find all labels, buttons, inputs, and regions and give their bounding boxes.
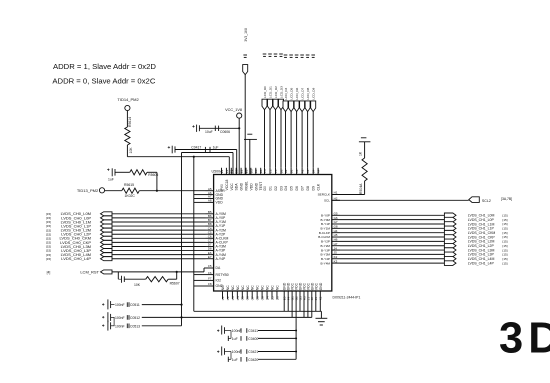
capacitor C5607 — [121, 276, 123, 283]
pin stub right pin K2 (B-Y4P) — [332, 258, 340, 260]
resistor R5607 — [146, 277, 169, 282]
no-connect mark above LCD_D3 — [279, 53, 283, 55]
svg-text:D6: D6 — [275, 296, 279, 300]
svg-text:C0513: C0513 — [130, 324, 140, 328]
capacitor C0606 plates — [214, 126, 216, 131]
pin stub bottom NC pin C6 — [246, 291, 248, 299]
svg-text:LCD_D6: LCD_D6 — [295, 87, 299, 99]
no-connect mark above LCD_D4 — [284, 54, 288, 56]
pin stub top pin F1 — [230, 168, 232, 175]
offpage tag LVDS_CH1_L3M — [444, 248, 456, 253]
pin stub top pin B1 — [290, 168, 292, 175]
pin stub left pin B5 (A-Y0M) — [206, 213, 214, 215]
terminal TID13_PM2 — [99, 188, 104, 193]
svg-text:D5: D5 — [270, 296, 274, 300]
wire net LCD_D4 to top pin — [285, 112, 287, 168]
junction rail/bus2 — [180, 316, 182, 318]
capacitor C0411 100nF — [217, 330, 219, 332]
svg-text:VCC_1V8: VCC_1V8 — [225, 108, 242, 112]
pin stub right pin H5 (B-CLKM) — [332, 236, 340, 238]
svg-text:C6: C6 — [246, 296, 250, 300]
pin stub bottom NC pin D4 — [266, 291, 268, 299]
pin stub left pin E6 (A-Y4M) — [206, 254, 214, 256]
wire C5607 to R5607 — [124, 278, 145, 280]
svg-text:D2: D2 — [274, 186, 278, 190]
wire LVDS_CH1_L0P — [340, 219, 444, 221]
pin stub left pin B6 (A-Y0P) — [206, 217, 214, 219]
wire bus GND1 y=311.3 — [194, 310, 322, 312]
offpage tag LVDS_CH0_L1M — [101, 220, 113, 224]
svg-text:VCC18: VCC18 — [225, 179, 229, 190]
offpage tag LVDS_CH1_L1M — [444, 222, 456, 227]
pin stub bottom NC pin D5 — [271, 291, 273, 299]
wire LVDS_CH0_L3P to chip — [112, 250, 206, 252]
capacitor C0605 10uF — [192, 125, 194, 127]
wire LVDS_CH0_L4M to chip — [112, 254, 206, 256]
svg-text:TID13_PM2: TID13_PM2 — [77, 188, 99, 193]
pin stub left pin E7 (A-Y4P) — [206, 258, 214, 260]
wire C0420 to collector — [258, 358, 296, 360]
pin stub bottom NC pin C8 — [256, 291, 258, 299]
svg-text:LCM_RST: LCM_RST — [80, 269, 99, 274]
op-amp U500 main IC body — [214, 175, 332, 292]
svg-text:NC: NC — [231, 285, 235, 290]
svg-text:C0421: C0421 — [248, 350, 258, 354]
wire branch down to C5607 — [117, 272, 119, 279]
pin stub bottom NC pin C1 — [222, 291, 224, 299]
offpage tag LVDS_CH1_CKP — [444, 235, 456, 240]
svg-text:C0417: C0417 — [191, 146, 201, 150]
svg-text:K1: K1 — [319, 296, 323, 300]
ground (pointing up) above R504A — [361, 137, 367, 139]
wire C0511 to rail — [142, 304, 182, 306]
svg-text:NC: NC — [266, 285, 270, 290]
pin stub top pin B4 — [312, 168, 314, 175]
pin stub bottom pin G3 (GND) — [299, 291, 301, 311]
offpage tag LVDS_CH1_L4P — [444, 261, 456, 266]
svg-text:NC: NC — [256, 285, 260, 290]
wire gnd stem to top pin — [249, 139, 251, 174]
pin stub right pin H4 (B-CLKP) — [332, 232, 340, 234]
offpage tag LVDS_CH1_L4M — [444, 256, 456, 261]
wire cap C0605 to VCC_1V8 net — [199, 127, 239, 129]
pin stub top pin C1 — [275, 168, 277, 175]
pin stub bottom pin H3 (VCC) — [303, 291, 305, 317]
net flag LCD_D4 — [283, 101, 288, 112]
pin stub left pin C7 (A-CLKP) — [206, 241, 214, 243]
wire rail to left pin — [194, 285, 206, 287]
svg-text:B4: B4 — [312, 169, 316, 173]
wire riser rail to top pin — [232, 153, 234, 175]
pin stub top pin B2 — [285, 168, 287, 175]
capacitor C0420 1uF left plate — [227, 357, 229, 362]
wire LCM_RST to pin — [204, 267, 206, 269]
pin stub top pin C3 — [264, 168, 266, 175]
no-connect mark above 3V3 wire — [243, 54, 247, 56]
net flag LCD_D2 — [273, 99, 278, 110]
no-connect mark above LCD_D1 — [268, 53, 272, 55]
pin stub bottom pin J1 (VCC) — [307, 291, 309, 317]
pin stub bottom NC pin C2 — [226, 291, 228, 299]
pin stub top pin D2 — [255, 168, 257, 175]
svg-text:10K: 10K — [134, 283, 141, 287]
svg-text:R5607: R5607 — [170, 282, 180, 286]
svg-text:C1: C1 — [221, 296, 225, 300]
terminal VCC_1V8 — [237, 113, 242, 118]
pin stub bottom pin F4 (GND) — [287, 291, 289, 311]
wire C0421 to collector — [258, 351, 296, 353]
svg-text:C4: C4 — [236, 296, 240, 300]
no-connect mark above LCD_D5 — [289, 54, 293, 56]
capacitor C5605 — [107, 169, 109, 171]
pin stub bottom pin G2 (VCC) — [295, 291, 297, 318]
wire shared node — [230, 331, 232, 339]
svg-text:C7: C7 — [251, 296, 255, 300]
svg-text:10K: 10K — [129, 147, 133, 154]
pin stub right pin G7 (B-Y1P) — [332, 223, 340, 225]
svg-text:R5615: R5615 — [124, 183, 134, 187]
pin stub right pin H2 (SCL) — [332, 199, 340, 201]
wire LVDS_CH1_L4P — [340, 262, 444, 264]
pin stub right pin H7 (B-Y2M) — [332, 245, 340, 247]
pin stub right pin J5 (B-Y3M) — [332, 253, 340, 255]
pin stub top pin A3 — [296, 168, 298, 175]
junction node TID14/VDD rail — [193, 156, 195, 158]
wire rail to riser — [182, 152, 234, 154]
pin stub left pin F6 (RSTYB0) — [206, 274, 214, 276]
svg-text:3V3_1V8: 3V3_1V8 — [244, 28, 248, 42]
svg-text:NC: NC — [251, 285, 255, 290]
svg-text:LVDS_CH0_L4P: LVDS_CH0_L4P — [61, 256, 91, 261]
wire C0400 to collector — [258, 337, 296, 339]
no-connect mark above LCD_D9 — [311, 54, 315, 56]
offpage tag SCL — [469, 197, 480, 203]
svg-text:CLK: CLK — [317, 183, 321, 190]
pin stub bottom NC pin C4 — [236, 291, 238, 299]
svg-text:B2: B2 — [284, 169, 288, 173]
svg-text:R504A: R504A — [359, 183, 363, 194]
svg-text:C0512: C0512 — [130, 316, 140, 320]
pin stub bottom NC pin C7 — [251, 291, 253, 299]
resistor R5605 — [130, 170, 147, 175]
svg-text:VCC: VCC — [230, 183, 234, 191]
pin stub right pin G8 (B-Y1M) — [332, 227, 340, 229]
pin stub top pin D3 — [250, 168, 252, 175]
wire LVDS_CH1_L1M — [340, 223, 444, 225]
wire SCL to tag — [332, 199, 469, 201]
wire riser TID14 to top pin — [228, 157, 230, 175]
capacitor C0511 100nF — [102, 303, 104, 305]
junction LCM_RST/RC — [176, 271, 178, 273]
wire vertical rail GND x=181.5 — [181, 153, 183, 326]
svg-text:NC: NC — [241, 285, 245, 290]
wire 3V3 feed to chip — [244, 75, 246, 175]
terminal TID14_PM2 — [125, 105, 130, 110]
svg-text:TID14_PM2: TID14_PM2 — [117, 97, 139, 102]
pin stub top pin F2 — [225, 168, 227, 175]
svg-text:C0400: C0400 — [248, 337, 258, 341]
capacitor C0513 100nF — [102, 324, 104, 326]
pin stub right pin G5 (B-Y0P) — [332, 214, 340, 216]
svg-text:D9: D9 — [312, 186, 316, 190]
pin stub left pin C6 (A-CLKM) — [206, 237, 214, 239]
pin stub bottom pin K1 (GND) — [319, 291, 321, 311]
net flag LCD_D5 — [289, 101, 294, 112]
net flag LCD_D1 — [268, 99, 273, 110]
svg-text:C0420: C0420 — [248, 358, 258, 362]
wire LVDS_CH0_L0P to chip — [112, 217, 206, 219]
svg-text:NC: NC — [261, 285, 265, 290]
svg-text:B-Y4M: B-Y4M — [321, 261, 331, 265]
pin stub right pin J4 (B-Y3P) — [332, 249, 340, 251]
wire cap to R5605 — [115, 171, 130, 173]
wire LVDS_CH0_L3M to chip — [112, 245, 206, 247]
wire collector vertical x=296 — [295, 318, 297, 359]
svg-text:D6: D6 — [295, 186, 299, 190]
net flag on 3V3 wire — [243, 65, 248, 75]
wire riser to top pin — [236, 150, 238, 175]
pin stub right pin H6 (B-Y2P) — [332, 240, 340, 242]
pin stub left pin F5 (DA) — [206, 267, 214, 269]
wire LCM_RST jog up — [203, 268, 205, 272]
wire LVDS_CH1_L3P — [340, 253, 444, 255]
svg-text:C5: C5 — [241, 296, 245, 300]
svg-text:D4: D4 — [284, 186, 288, 190]
svg-text:J3: J3 — [314, 297, 318, 301]
svg-text:VDD: VDD — [216, 201, 224, 205]
wire LVDS_CH0_L2M to chip — [112, 229, 206, 231]
svg-text:D8: D8 — [306, 186, 310, 190]
wire net LCD_D2 to top pin — [275, 110, 277, 168]
svg-text:C3: C3 — [263, 169, 267, 173]
offpage tag LVDS_CH1_L0M — [444, 213, 456, 218]
svg-text:IO2: IO2 — [216, 279, 222, 283]
pin stub top pin B3 — [280, 168, 282, 175]
svg-text:[15]: [15] — [502, 261, 507, 265]
no-connect mark above LCD_D2 — [274, 53, 278, 55]
pin stub bottom NC pin D6 — [276, 291, 278, 299]
pin stub left pin C4 (A-Y2M) — [206, 229, 214, 231]
wire rail to left pin — [194, 279, 206, 281]
svg-text:A8: A8 — [208, 199, 212, 203]
pin stub left pin B8 (A-Y1P) — [206, 225, 214, 227]
svg-text:E2: E2 — [240, 169, 244, 173]
svg-text:10uF: 10uF — [205, 130, 213, 134]
wire shared node — [230, 352, 232, 360]
svg-text:C2: C2 — [226, 296, 230, 300]
svg-text:C3: C3 — [231, 296, 235, 300]
no-connect mark above LCD_D8 — [306, 54, 310, 56]
offpage tag LVDS_CH0_L0M — [101, 212, 113, 216]
svg-text:GND: GND — [319, 282, 323, 290]
wire LVDS_CH1_L2P — [340, 245, 444, 247]
wire connector between C0512/C0513 — [113, 317, 115, 325]
offpage tag LVDS_CH0_L4M — [101, 253, 113, 257]
pin stub bottom pin J3 (VCC) — [315, 291, 317, 311]
svg-text:SCL2: SCL2 — [482, 199, 491, 203]
svg-text:LVDS_CH1_L4P: LVDS_CH1_L4P — [468, 261, 495, 265]
pin stub top pin E2 — [240, 168, 242, 175]
pin stub bottom pin J2 (GND) — [311, 291, 313, 317]
wire LVDS_CH0_L0M to chip — [112, 213, 206, 215]
pin stub left pin F7 (IO2) — [206, 279, 214, 281]
ground (pointing up) near top pins — [247, 133, 252, 135]
wire LVDS_CH0_CKP to chip — [112, 241, 206, 243]
svg-text:F5: F5 — [208, 264, 212, 268]
wire cap C0417 net — [175, 149, 237, 151]
junction rail/C0511 — [180, 304, 182, 306]
net flag LCD_D9 — [311, 101, 316, 112]
svg-text:SCL: SCL — [324, 199, 330, 203]
svg-text:100nF: 100nF — [232, 350, 242, 354]
wire R5607 out — [168, 278, 177, 280]
pin stub top pin C2 — [269, 168, 271, 175]
svg-text:D1: D1 — [269, 186, 273, 190]
svg-text:C1: C1 — [274, 169, 278, 173]
net flag LCD_D3 — [279, 99, 284, 110]
svg-text:ADDR = 0, Slave Addr = 0x2C: ADDR = 0, Slave Addr = 0x2C — [52, 76, 155, 85]
wire LVDS_CH0_L2P to chip — [112, 233, 206, 235]
wire SERCLK to pull-up — [332, 194, 365, 196]
svg-text:NC: NC — [246, 285, 250, 290]
offpage tag LVDS_CH0_CKP — [101, 240, 113, 244]
wire C0513 to rail — [142, 325, 182, 327]
svg-text:NC: NC — [236, 285, 240, 290]
svg-text:E7: E7 — [208, 255, 212, 259]
svg-text:1uF: 1uF — [108, 178, 114, 182]
svg-text:D7: D7 — [301, 186, 305, 190]
no-connect mark above LCD_D0 — [263, 53, 267, 55]
offpage tag LVDS_CH1_L0P — [444, 217, 456, 222]
svg-text:D5: D5 — [290, 186, 294, 190]
wire LCM_RST — [112, 271, 204, 273]
offpage tag LVDS_CH0_L2P — [101, 232, 113, 236]
svg-text:1uF: 1uF — [232, 358, 238, 362]
no-connect mark above LCD_D6 — [295, 54, 299, 56]
wire LVDS_CH0_L1P to chip — [112, 225, 206, 227]
svg-text:VCC: VCC — [314, 282, 318, 290]
svg-text:LCD_D9: LCD_D9 — [312, 87, 316, 99]
pin stub top pin A2 — [301, 168, 303, 175]
svg-text:B3: B3 — [279, 169, 283, 173]
svg-text:RGB1: RGB1 — [245, 181, 249, 190]
wire rise to LCM_RST — [176, 272, 178, 279]
svg-text:C0511: C0511 — [130, 303, 140, 307]
wire TID14 to R5614 — [126, 111, 128, 127]
wire rail to left pin — [194, 194, 206, 196]
pin stub bottom NC pin C5 — [241, 291, 243, 299]
svg-text:NC: NC — [226, 285, 230, 290]
svg-text:100nF: 100nF — [232, 329, 242, 333]
pin stub bottom NC pin C3 — [231, 291, 233, 299]
svg-text:ADDR = 1, Slave Addr = 0x2D: ADDR = 1, Slave Addr = 0x2D — [53, 62, 156, 71]
offpage tag LVDS_CH0_CKM — [101, 236, 113, 240]
wire rail to left pin — [194, 198, 206, 200]
wire net LCD_D3 to top pin — [280, 110, 282, 168]
wire net LCD_D7 to top pin — [301, 112, 303, 168]
wire net LCD_D1 to top pin — [269, 110, 271, 168]
svg-text:NC: NC — [271, 285, 275, 290]
svg-text:LCD_D3: LCD_D3 — [280, 86, 284, 98]
svg-text:1K02C: 1K02C — [125, 194, 136, 198]
pin stub right pin K3 (B-Y4M) — [332, 262, 340, 264]
wire VCC_1V8 to chip — [238, 118, 240, 174]
offpage tag LVDS_CH1_CKM — [444, 230, 456, 235]
wire LVDS_CH1_L1P — [340, 227, 444, 229]
svg-text:R5614: R5614 — [128, 117, 132, 127]
pin stub left pin A6 (GND) — [206, 194, 214, 196]
wire net LCD_D6 to top pin — [296, 112, 298, 168]
svg-text:NC: NC — [275, 285, 279, 290]
svg-text:LCD_D0: LCD_D0 — [263, 86, 267, 98]
wire drop to TID13 net — [156, 172, 158, 190]
svg-text:SERCLK: SERCLK — [318, 193, 331, 197]
offpage tag LVDS_CH0_L1P — [101, 224, 113, 228]
wire bus GND2 y=317.4 — [142, 316, 312, 318]
svg-text:GND: GND — [254, 182, 258, 190]
net flag LCD_D6 — [294, 101, 299, 112]
svg-text:LCD_D5: LCD_D5 — [290, 87, 294, 99]
wire LVDS_CH1_L4M — [340, 258, 444, 260]
ground symbol bottom right — [320, 311, 322, 318]
svg-text:D3: D3 — [280, 186, 284, 190]
pin stub left pin A7 (GND) — [206, 198, 214, 200]
wire TID13 to chip pin A5 — [139, 190, 205, 192]
wire LVDS_CH1_L3M — [340, 249, 444, 251]
offpage tag LCM_RST — [101, 270, 113, 274]
no-connect mark above LCD_D7 — [300, 54, 304, 56]
wire rail to left pin — [194, 274, 206, 276]
svg-text:A-Y4P: A-Y4P — [216, 257, 227, 261]
pin stub bottom pin E5 (GND) — [283, 291, 285, 311]
wire R5614 down — [126, 145, 128, 157]
resistor R5614 — [125, 127, 130, 145]
svg-text:D4: D4 — [265, 296, 269, 300]
wire net LCD_D5 to top pin — [290, 112, 292, 168]
svg-text:A4: A4 — [317, 169, 321, 173]
pin stub top pin A4 — [317, 168, 319, 175]
pin stub top pin F3 — [221, 168, 223, 175]
capacitor C0421 100nF — [217, 351, 219, 353]
capacitor C0512 100nF — [102, 316, 104, 318]
pin stub left pin D8 (A-Y3P) — [206, 250, 214, 252]
svg-text:LCD_D8: LCD_D8 — [306, 87, 310, 99]
svg-text:C8: C8 — [256, 296, 260, 300]
pin stub top pin A1 — [307, 168, 309, 175]
resistor R504A — [362, 158, 367, 181]
svg-text:F6: F6 — [208, 271, 212, 275]
cap plate tick — [204, 147, 206, 152]
svg-text:C0606: C0606 — [220, 130, 230, 134]
svg-text:F8: F8 — [208, 282, 212, 286]
svg-text:[4]: [4] — [47, 270, 51, 274]
junction VCC net — [238, 127, 240, 129]
wire LVDS_CH1_L2M — [340, 240, 444, 242]
junction collector — [295, 351, 297, 353]
pin stub left pin A5 (ASSR) — [206, 190, 214, 192]
svg-text:RSTYB0: RSTYB0 — [216, 273, 229, 277]
offpage tag LVDS_CH0_L3M — [101, 244, 113, 248]
svg-text:DA: DA — [216, 266, 221, 270]
junction TID13/RC — [156, 190, 158, 192]
net flag LCD_D7 — [300, 101, 305, 112]
wire C0411 to collector — [258, 330, 296, 332]
svg-text:C9: C9 — [261, 296, 265, 300]
svg-text:F3: F3 — [220, 169, 224, 173]
offpage tag LVDS_CH1_L2P — [444, 243, 456, 248]
svg-text:100nF: 100nF — [115, 316, 125, 320]
svg-text:C2: C2 — [268, 169, 272, 173]
